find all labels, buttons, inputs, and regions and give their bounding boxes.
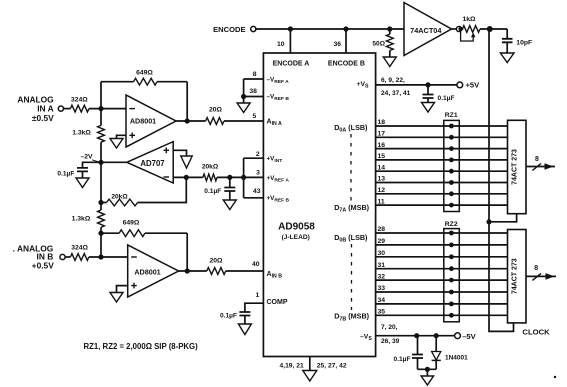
svg-text:40: 40 (252, 261, 260, 268)
svg-text:AD9058: AD9058 (278, 221, 315, 232)
wire AD707 inv input (173, 176, 203, 178)
ground chip substrate (303, 371, 317, 382)
bus output B 8 (526, 275, 556, 277)
wire data B bit pin 28 (376, 232, 508, 234)
pin 43 stub (244, 197, 264, 199)
svg-text:649Ω: 649Ω (123, 220, 140, 227)
ground 10pF (500, 53, 514, 63)
svg-text:31: 31 (378, 262, 386, 269)
wire data A bit pin 13 (376, 182, 508, 184)
ground +5V cap (422, 103, 435, 113)
op-amp U6 AD8001 channel B (128, 245, 179, 297)
svg-text:29: 29 (378, 238, 386, 245)
svg-text:10pF: 10pF (516, 40, 532, 47)
pin 38 stub (244, 96, 264, 98)
junction opamp A output (185, 118, 190, 123)
svg-text:10: 10 (277, 41, 285, 48)
svg-text:7, 20,: 7, 20, (381, 324, 398, 331)
capacitor 10pF (506, 29, 508, 39)
junction pin36 (343, 26, 348, 31)
resistor 324ohm B (65, 256, 70, 258)
svg-text:14: 14 (378, 164, 386, 171)
svg-text:AD8001: AD8001 (130, 117, 156, 126)
resistor 649ohm B feedback (101, 232, 119, 234)
terminal +5V (457, 82, 463, 88)
svg-text:2: 2 (256, 151, 260, 158)
svg-text:324Ω: 324Ω (71, 245, 88, 252)
wire data A bit pin 17 (376, 136, 508, 138)
wire data B bit pin 29 (376, 244, 508, 246)
svg-text:35: 35 (378, 309, 386, 316)
junction 649B tap (98, 231, 103, 236)
wire data B bit pin 30 (376, 256, 508, 258)
speck bottom right (554, 376, 556, 378)
ground COMP cap (238, 324, 251, 335)
pin 3 stub (244, 176, 264, 178)
wire data B bit pin 35 (376, 314, 508, 316)
svg-text:12: 12 (378, 187, 386, 194)
ground opamp B noninv (117, 286, 128, 293)
terminal -5V (455, 333, 461, 339)
svg-text:1kΩ: 1kΩ (462, 16, 476, 23)
svg-text:+5V: +5V (466, 80, 481, 89)
IC U3 74ACT273 A (508, 120, 527, 213)
op-amp U4 AD8001 channel A (126, 95, 176, 147)
resistor 324ohm A (64, 108, 71, 110)
svg-text:74ACT04: 74ACT04 (410, 26, 442, 35)
svg-text:5: 5 (253, 113, 257, 120)
svg-text:1N4001: 1N4001 (445, 354, 468, 361)
resistor 649ohm A feedback (100, 82, 102, 109)
svg-text:11: 11 (378, 198, 385, 205)
svg-text:AD707: AD707 (140, 159, 164, 168)
svg-text:36: 36 (333, 41, 341, 48)
terminal ANALOG IN A (58, 106, 63, 111)
op-amp U5 AD707 (101, 161, 127, 163)
junction 20k rail tap (98, 200, 103, 205)
terminal ENCODE (251, 26, 256, 31)
resistor 20kohm feedback (138, 177, 187, 202)
ground opamp A noninv (117, 135, 127, 138)
resistor 1.3kohm B (98, 210, 105, 227)
svg-text:34: 34 (378, 297, 386, 304)
ground 50ohm (383, 57, 396, 67)
svg-text:43: 43 (253, 188, 261, 195)
IC U1 AD9058 body (263, 53, 375, 357)
svg-text:1: 1 (256, 292, 260, 299)
svg-text:0.1µF: 0.1µF (394, 356, 411, 363)
resistor 20kohm series (203, 174, 217, 181)
wire data A bit pin 12 (376, 193, 508, 195)
junction input B (98, 254, 103, 259)
junction -5V cap (414, 333, 419, 338)
wire data A bit pin 11 (376, 204, 508, 206)
svg-text:1.3kΩ: 1.3kΩ (72, 130, 91, 137)
wire 20ohm B to pin40 (226, 270, 264, 272)
resistor network RZ2 (444, 229, 460, 322)
dashed bus B inside chip (351, 244, 353, 310)
svg-text:20Ω: 20Ω (209, 106, 223, 113)
diode D1 1N4001 (435, 336, 437, 352)
svg-text:–2V: –2V (81, 154, 94, 161)
wire data B bit pin 31 (376, 268, 508, 270)
junction AD707 inv (184, 175, 189, 180)
capacitor 0.1uF COMP (245, 303, 264, 312)
junction -5V ground (425, 367, 430, 372)
wire data A bit pin 15 (376, 159, 508, 161)
IC U7 74ACT273 B (508, 230, 527, 323)
svg-text:COMP: COMP (267, 299, 288, 306)
svg-text:AD8001: AD8001 (134, 267, 160, 276)
wire to opamp A inv input (89, 108, 126, 110)
dashed bus A inside chip (350, 134, 352, 203)
svg-text:0.1µF: 0.1µF (438, 95, 455, 102)
svg-text:–5V: –5V (462, 332, 476, 341)
svg-text:50Ω: 50Ω (372, 41, 385, 48)
svg-text:20Ω: 20Ω (209, 258, 223, 265)
junction clock node (487, 26, 493, 32)
svg-text:RZ1, RZ2 = 2,000Ω SIP (8-PKG): RZ1, RZ2 = 2,000Ω SIP (8-PKG) (84, 342, 199, 351)
wire chip bottom ground stub (309, 357, 311, 371)
svg-text:30: 30 (378, 250, 386, 257)
svg-text:16: 16 (378, 142, 386, 149)
svg-text:8: 8 (535, 156, 539, 163)
svg-text:4,19, 21: 4,19, 21 (280, 362, 304, 369)
junction pin10 (288, 26, 293, 31)
wire data A bit pin 14 (376, 170, 508, 172)
junction input A (98, 106, 103, 111)
resistor 50ohm (389, 29, 391, 34)
pin 8 stub (244, 78, 264, 80)
wire pin10 stub (289, 29, 291, 53)
junction 50ohm (387, 26, 392, 31)
svg-text:324Ω: 324Ω (71, 97, 88, 104)
junction -5V diode (434, 333, 439, 338)
svg-text:32: 32 (378, 273, 386, 280)
wire data B bit pin 33 (376, 291, 508, 293)
capacitor 0.1uF -2V (83, 162, 102, 168)
bus output A 8 (526, 166, 555, 168)
wire data A bit pin 18 (376, 125, 508, 127)
svg-text:20kΩ: 20kΩ (202, 163, 219, 170)
resistor 1.3kohm A (100, 109, 102, 126)
wire +VS to +5V (376, 84, 457, 86)
ground ref cap (223, 200, 236, 210)
svg-text:RZ1: RZ1 (445, 112, 458, 119)
capacitor 0.1uF +5V (427, 85, 429, 95)
svg-text:1.3kΩ: 1.3kΩ (72, 215, 91, 222)
svg-text:8: 8 (534, 265, 538, 272)
svg-text:ENCODE B: ENCODE B (328, 61, 365, 68)
svg-text:6, 9, 22,: 6, 9, 22, (381, 77, 405, 84)
pin 2 stub (244, 157, 264, 159)
node -2V (98, 160, 103, 165)
svg-text:±0.5V: ±0.5V (32, 113, 54, 123)
svg-text:RZ2: RZ2 (445, 221, 458, 228)
resistor 20ohm A (176, 120, 206, 122)
wire 1k to clock node (480, 28, 507, 30)
svg-text:CLOCK: CLOCK (522, 327, 550, 336)
ground -VREF (243, 97, 245, 104)
svg-text:26, 39: 26, 39 (381, 338, 400, 345)
wire clock tap to U3 (489, 214, 517, 222)
svg-text:(J-LEAD): (J-LEAD) (282, 234, 310, 241)
svg-text:74ACT 273: 74ACT 273 (512, 258, 519, 294)
svg-text:17: 17 (378, 131, 386, 138)
svg-text:+0.5V: +0.5V (32, 261, 55, 271)
wire -VS to -5V (376, 335, 455, 337)
svg-text:13: 13 (378, 176, 386, 183)
junction bracket pin3 (241, 175, 246, 180)
svg-text:0.1µF: 0.1µF (204, 188, 221, 195)
wire data A bit pin 16 (376, 148, 508, 150)
svg-text:0.1µF: 0.1µF (57, 170, 74, 177)
wire bubble to 1k (452, 28, 457, 30)
svg-text:649Ω: 649Ω (136, 69, 153, 76)
svg-text:38: 38 (249, 88, 257, 95)
svg-text:ENCODE: ENCODE (213, 25, 246, 34)
wire data B bit pin 32 (376, 279, 508, 281)
svg-text:15: 15 (378, 153, 386, 160)
svg-text:24, 37, 41: 24, 37, 41 (381, 90, 411, 97)
svg-text:28: 28 (378, 226, 386, 233)
inverter output bubble (456, 26, 461, 31)
capacitor 0.1uF -5V (417, 336, 419, 355)
resistor network RZ1 (444, 120, 460, 211)
junction ref cap (227, 175, 232, 180)
junction clock tap U3 (486, 219, 491, 224)
wire bracket 8-38 (243, 79, 245, 97)
wire pin36 stub (345, 29, 347, 53)
wire 20ohm to pin5 (224, 120, 263, 122)
svg-text:18: 18 (378, 119, 386, 126)
junction +5V cap (425, 82, 430, 87)
svg-text:33: 33 (378, 285, 386, 292)
svg-text:0.1µF: 0.1µF (220, 312, 237, 319)
wire clock vertical line (489, 29, 514, 331)
svg-text:20kΩ: 20kΩ (111, 193, 128, 200)
resistor 20ohm B (179, 270, 207, 272)
wire -5V decouple join (418, 368, 437, 370)
junction opamp B output (185, 268, 190, 273)
ground -5V (426, 369, 428, 376)
svg-text:8: 8 (253, 71, 257, 78)
wire data B bit pin 34 (376, 303, 508, 305)
capacitor 0.1uF ref (229, 177, 231, 187)
svg-text:3: 3 (256, 169, 260, 176)
inverter U2 74ACT04 (404, 3, 452, 56)
ground -2V cap (76, 178, 89, 188)
svg-text:25, 27, 42: 25, 27, 42 (317, 362, 347, 369)
svg-text:ENCODE A: ENCODE A (273, 61, 310, 68)
terminal ANALOG IN B (60, 254, 65, 259)
junction bracket 8-38 (241, 94, 246, 99)
svg-text:74ACT 273: 74ACT 273 (512, 149, 519, 185)
wire to opamp B inv input (89, 256, 128, 258)
wire ENCODE to 74ACT04 (256, 28, 404, 30)
ground AD707 noninv (173, 150, 186, 156)
wire bracket 2-43 (243, 158, 245, 198)
